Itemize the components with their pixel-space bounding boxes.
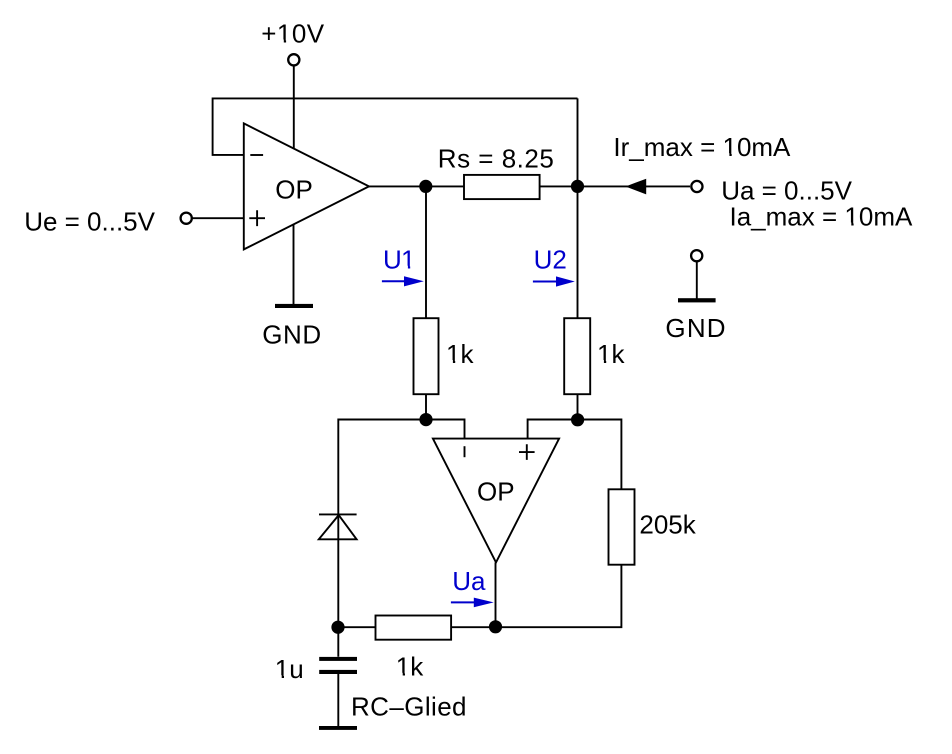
svg-text:1k: 1k (446, 339, 474, 369)
svg-text:Ia_max = 10mA: Ia_max = 10mA (730, 201, 913, 231)
svg-text:1k: 1k (396, 652, 424, 682)
svg-text:1k: 1k (597, 339, 625, 369)
svg-text:1u: 1u (275, 654, 304, 684)
svg-text:GND: GND (262, 320, 322, 350)
svg-text:Ue = 0...5V: Ue = 0...5V (24, 206, 155, 236)
svg-text:OP: OP (477, 476, 515, 506)
svg-text:Ir_max = 10mA: Ir_max = 10mA (613, 132, 791, 162)
svg-text:205k: 205k (639, 509, 696, 539)
svg-text:RC–Glied: RC–Glied (351, 691, 467, 721)
svg-text:+10V: +10V (261, 18, 325, 48)
svg-text:GND: GND (665, 313, 726, 343)
svg-text:U2: U2 (534, 245, 567, 275)
svg-text:OP: OP (275, 175, 313, 205)
svg-text:Ua: Ua (452, 566, 486, 596)
svg-text:Rs = 8.25: Rs = 8.25 (438, 144, 555, 174)
svg-text:U1: U1 (383, 245, 415, 275)
